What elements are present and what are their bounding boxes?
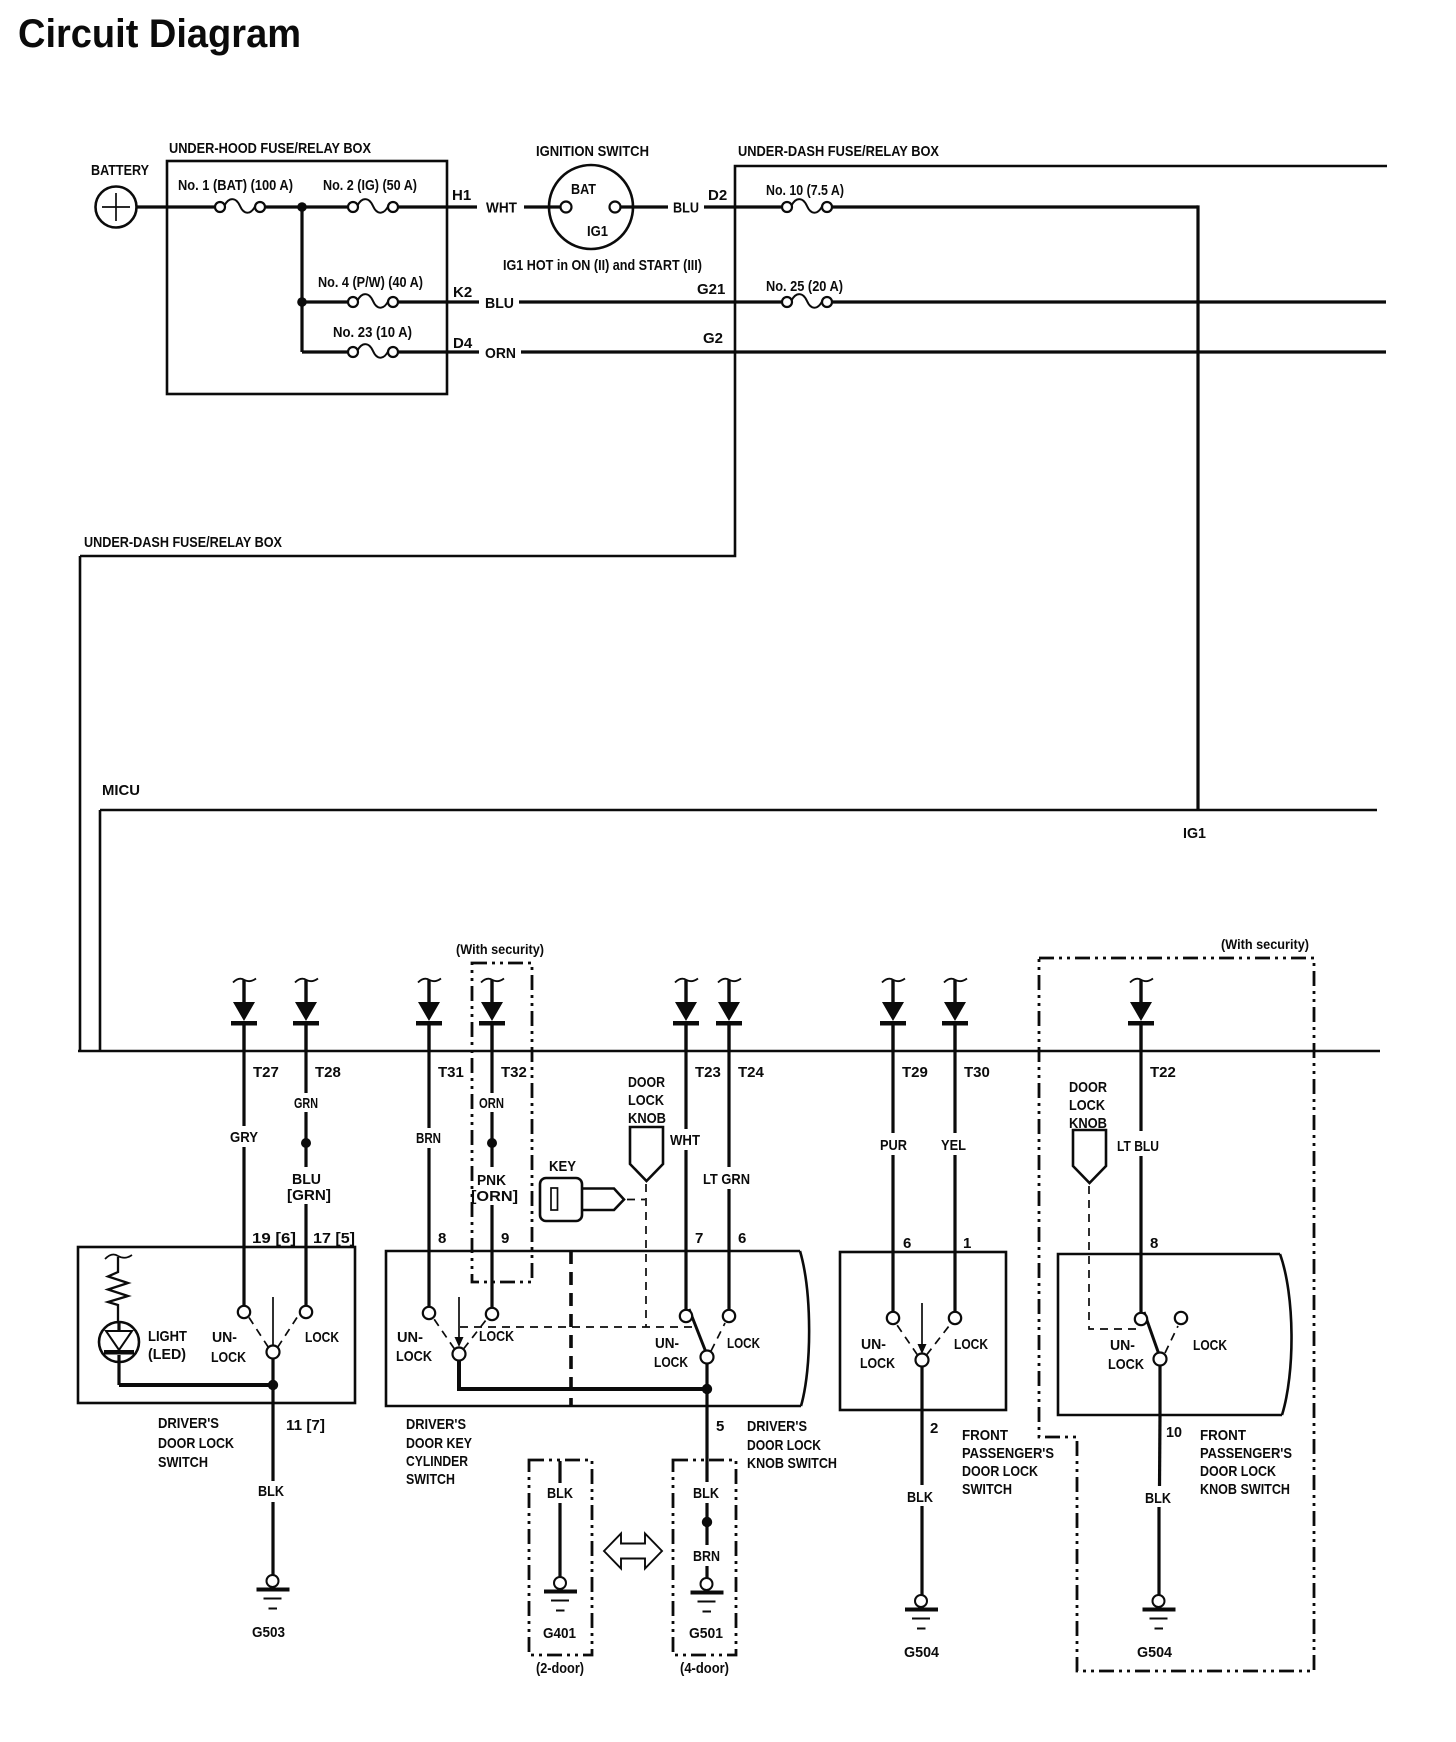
wire T32 upper xyxy=(490,1051,493,1093)
svg-text:ORN: ORN xyxy=(479,1095,504,1112)
svg-text:T32: T32 xyxy=(501,1064,527,1081)
diode D-T27 xyxy=(231,979,257,1052)
diode D-T24 xyxy=(716,979,742,1052)
svg-text:PASSENGER'S: PASSENGER'S xyxy=(962,1445,1054,1462)
svg-text:LOCK: LOCK xyxy=(727,1335,760,1352)
label driver's door key cylinder switch xyxy=(406,1416,472,1488)
ground G503 xyxy=(257,1575,290,1610)
diode D-T23 xyxy=(673,979,699,1052)
svg-text:8: 8 xyxy=(438,1230,446,1247)
mechanical link dashed from knob xyxy=(645,1184,647,1327)
wire T27 upper xyxy=(242,1051,245,1126)
svg-text:PUR: PUR xyxy=(880,1137,907,1154)
svg-text:(With security): (With security) xyxy=(1221,936,1309,952)
svg-text:BLK: BLK xyxy=(258,1483,284,1500)
svg-text:T31: T31 xyxy=(438,1064,464,1081)
svg-text:5: 5 xyxy=(716,1418,724,1435)
interchange arrow symbol xyxy=(604,1534,662,1569)
svg-text:UN-: UN- xyxy=(1110,1337,1135,1354)
svg-text:No. 10 (7.5 A): No. 10 (7.5 A) xyxy=(766,182,844,199)
wire G401 xyxy=(558,1461,561,1483)
svg-text:SWITCH: SWITCH xyxy=(158,1454,208,1471)
svg-text:DRIVER'S: DRIVER'S xyxy=(158,1415,219,1432)
label front passenger's door lock knob switch xyxy=(1200,1427,1292,1498)
svg-text:DOOR LOCK: DOOR LOCK xyxy=(747,1437,821,1454)
under-hood fuse/relay box xyxy=(167,161,447,394)
svg-text:[ORN]: [ORN] xyxy=(471,1188,518,1205)
svg-text:G401: G401 xyxy=(543,1625,576,1642)
door lock knob symbol (driver) xyxy=(630,1127,663,1181)
svg-text:T27: T27 xyxy=(253,1064,279,1081)
svg-text:Circuit Diagram: Circuit Diagram xyxy=(18,12,301,56)
wire T30 lower xyxy=(953,1155,956,1312)
wire T31 lower xyxy=(427,1148,430,1307)
svg-text:GRN: GRN xyxy=(294,1095,318,1112)
svg-text:KEY: KEY xyxy=(549,1158,576,1175)
svg-text:D4: D4 xyxy=(453,335,473,352)
door lock knob label (driver) xyxy=(628,1074,666,1127)
svg-text:LOCK: LOCK xyxy=(479,1328,514,1345)
wire T29 lower xyxy=(891,1155,894,1312)
front passenger's door lock knob switch box xyxy=(1058,1254,1292,1415)
svg-text:WHT: WHT xyxy=(486,200,517,217)
svg-text:LOCK: LOCK xyxy=(954,1336,988,1353)
wire T32 mid xyxy=(490,1112,493,1140)
svg-text:KNOB SWITCH: KNOB SWITCH xyxy=(1200,1481,1290,1498)
svg-text:[GRN]: [GRN] xyxy=(287,1187,331,1204)
ground G401 xyxy=(544,1577,577,1612)
svg-text:7: 7 xyxy=(695,1230,703,1247)
wire pass switch common down xyxy=(920,1366,923,1410)
svg-text:No. 4 (P/W) (40 A): No. 4 (P/W) (40 A) xyxy=(318,274,423,291)
svg-text:MICU: MICU xyxy=(102,782,140,799)
svg-text:H1: H1 xyxy=(452,187,471,204)
svg-text:WHT: WHT xyxy=(670,1132,700,1149)
svg-text:D2: D2 xyxy=(708,187,727,204)
node junction LED/switch xyxy=(268,1380,278,1390)
svg-text:(4-door): (4-door) xyxy=(680,1660,729,1677)
svg-text:G503: G503 xyxy=(252,1624,285,1641)
driver's door key cylinder / knob switch box xyxy=(386,1251,809,1406)
svg-text:SWITCH: SWITCH xyxy=(962,1481,1012,1498)
svg-text:T22: T22 xyxy=(1150,1064,1176,1081)
wire T32 lower xyxy=(490,1205,493,1308)
ground G501 xyxy=(691,1578,724,1613)
wire to G503 lower xyxy=(271,1502,274,1575)
svg-text:DOOR: DOOR xyxy=(628,1074,665,1091)
splice dot T28 xyxy=(301,1138,311,1148)
ground G504 (pass knob) xyxy=(1143,1595,1176,1630)
svg-text:DOOR LOCK: DOOR LOCK xyxy=(962,1463,1038,1480)
svg-text:IGNITION SWITCH: IGNITION SWITCH xyxy=(536,143,649,160)
svg-text:ORN: ORN xyxy=(485,345,516,362)
svg-text:T30: T30 xyxy=(964,1064,990,1081)
wire corner to fuse No.23 xyxy=(302,350,348,353)
wire G501 mid xyxy=(705,1503,708,1545)
svg-text:BLK: BLK xyxy=(907,1489,933,1506)
svg-text:LT GRN: LT GRN xyxy=(703,1171,750,1188)
vertical bus in under-hood box xyxy=(300,207,303,352)
resistor R1 xyxy=(108,1257,128,1322)
svg-text:9: 9 xyxy=(501,1230,509,1247)
svg-text:G504: G504 xyxy=(904,1644,940,1661)
svg-text:LOCK: LOCK xyxy=(860,1355,895,1372)
svg-text:UN-: UN- xyxy=(397,1329,423,1346)
svg-text:DOOR LOCK: DOOR LOCK xyxy=(1200,1463,1276,1480)
wire ORN to right end (G2) xyxy=(521,350,1386,353)
wire T29 upper xyxy=(891,1051,894,1133)
svg-text:11 [7]: 11 [7] xyxy=(286,1417,325,1434)
svg-text:No. 23 (10 A): No. 23 (10 A) xyxy=(333,324,412,341)
svg-text:BAT: BAT xyxy=(571,181,596,198)
svg-text:BRN: BRN xyxy=(416,1130,441,1147)
MICU / under-dash box bottom edge xyxy=(78,1050,1380,1053)
splice dot T32 xyxy=(487,1138,497,1148)
svg-text:UNDER-DASH FUSE/RELAY BOX: UNDER-DASH FUSE/RELAY BOX xyxy=(84,534,282,551)
svg-text:BATTERY: BATTERY xyxy=(91,162,149,179)
wire T32 mid2 xyxy=(490,1146,493,1167)
svg-text:(LED): (LED) xyxy=(148,1346,186,1363)
svg-text:LOCK: LOCK xyxy=(396,1348,432,1365)
svg-text:SWITCH: SWITCH xyxy=(406,1471,455,1488)
node junction knob common xyxy=(702,1384,712,1394)
switch S2 driver's door key cylinder switch xyxy=(423,1297,498,1361)
wire to G504 upper (pass knob) xyxy=(1158,1415,1162,1486)
wire junction to fuse No.2 xyxy=(302,205,348,208)
svg-text:8: 8 xyxy=(1150,1235,1158,1252)
wire T24 lower xyxy=(727,1189,730,1310)
fuse No.10 (7.5 A) xyxy=(782,199,832,213)
svg-text:LOCK: LOCK xyxy=(1108,1356,1144,1373)
label driver's door lock switch xyxy=(158,1415,234,1471)
svg-text:DOOR: DOOR xyxy=(1069,1079,1107,1096)
label front passenger's door lock switch xyxy=(962,1427,1054,1498)
diode D-T32 xyxy=(479,979,505,1052)
wire fuse No.10 to corner xyxy=(832,205,1198,208)
wire T31 upper xyxy=(427,1051,430,1128)
under-dash fuse/relay box left edge xyxy=(79,556,82,1051)
switch S1 driver's door lock switch xyxy=(238,1297,312,1359)
svg-text:UN-: UN- xyxy=(655,1335,679,1352)
fuse No.25 (20 A) xyxy=(782,294,832,308)
wire T24 upper xyxy=(727,1051,730,1167)
svg-text:T28: T28 xyxy=(315,1064,341,1081)
wire WHT to ignition switch xyxy=(524,205,561,208)
wire T23 upper xyxy=(684,1051,687,1129)
svg-text:G501: G501 xyxy=(689,1625,723,1642)
wire fuse No.23 to ORN gap xyxy=(398,350,479,353)
svg-text:G2: G2 xyxy=(703,330,723,347)
svg-text:DOOR LOCK: DOOR LOCK xyxy=(158,1435,234,1452)
wire pass knob common down xyxy=(1158,1365,1161,1415)
svg-text:T29: T29 xyxy=(902,1064,928,1081)
svg-text:No. 25 (20 A): No. 25 (20 A) xyxy=(766,278,843,295)
diode D-T30 xyxy=(942,979,968,1052)
svg-text:1: 1 xyxy=(963,1235,971,1252)
wire to G503 upper xyxy=(271,1403,274,1481)
svg-text:DRIVER'S: DRIVER'S xyxy=(406,1416,466,1433)
svg-text:BLK: BLK xyxy=(693,1485,719,1502)
battery B1 xyxy=(96,187,137,228)
svg-text:KNOB SWITCH: KNOB SWITCH xyxy=(747,1455,837,1472)
wire junction to fuse No.4 xyxy=(302,300,348,303)
svg-text:6: 6 xyxy=(903,1235,911,1252)
mechanical link dashed horizontal xyxy=(460,1326,694,1328)
node junction A xyxy=(297,202,307,212)
svg-text:UNDER-DASH FUSE/RELAY BOX: UNDER-DASH FUSE/RELAY BOX xyxy=(738,143,939,160)
svg-text:KNOB: KNOB xyxy=(628,1110,666,1127)
svg-text:UN-: UN- xyxy=(861,1336,886,1353)
node junction B xyxy=(297,297,307,307)
wire fuse No.1 to junction xyxy=(265,205,302,208)
wire fuse No.4 to BLU gap xyxy=(398,300,479,303)
svg-text:2: 2 xyxy=(930,1420,938,1437)
wire fuse No.2 to WHT gap xyxy=(398,205,477,208)
svg-text:FRONT: FRONT xyxy=(1200,1427,1246,1444)
svg-text:LT BLU: LT BLU xyxy=(1117,1138,1159,1155)
wire to G504 lower (pass knob) xyxy=(1157,1507,1160,1596)
under-dash fuse/relay box outline (top section) xyxy=(80,166,1387,556)
door lock knob label (passenger) xyxy=(1069,1079,1107,1132)
fuse No.4 (P/W) (40 A) xyxy=(348,294,398,308)
wire T28 lower xyxy=(304,1204,307,1306)
svg-text:BLK: BLK xyxy=(547,1485,573,1502)
wire key cylinder common to knob common xyxy=(459,1360,707,1389)
MICU box left edge xyxy=(99,810,102,1051)
wire T28 upper xyxy=(304,1051,307,1093)
svg-text:LOCK: LOCK xyxy=(654,1354,688,1371)
switch S3 driver's door lock knob switch xyxy=(680,1309,735,1364)
LED light xyxy=(99,1322,139,1385)
wire fuse No.25 to right end xyxy=(832,300,1386,303)
svg-text:PASSENGER'S: PASSENGER'S xyxy=(1200,1445,1292,1462)
ignition switch SW1 xyxy=(549,165,633,249)
wire to G504 upper (pass switch) xyxy=(920,1410,923,1485)
wire BLU to under-dash box (G21) xyxy=(519,300,782,303)
svg-text:T23: T23 xyxy=(695,1064,721,1081)
fuse No.23 (10 A) xyxy=(348,344,398,358)
svg-text:BRN: BRN xyxy=(693,1548,720,1565)
svg-text:BLU: BLU xyxy=(485,295,514,312)
wire BLU to fuse No.10 xyxy=(704,205,782,208)
svg-text:DRIVER'S: DRIVER'S xyxy=(747,1418,807,1435)
diode D-T29 xyxy=(880,979,906,1052)
svg-text:IG1: IG1 xyxy=(1183,825,1206,842)
svg-text:BLU: BLU xyxy=(673,200,699,217)
wire T27 lower xyxy=(242,1147,245,1306)
G401 box (2-door) xyxy=(529,1460,592,1655)
bold dashed divider xyxy=(569,1251,573,1406)
diode D-T28 xyxy=(293,979,319,1052)
wire T28 mid xyxy=(304,1112,307,1140)
door lock knob symbol (passenger) xyxy=(1073,1130,1106,1183)
svg-text:(With security): (With security) xyxy=(456,941,544,957)
wire ignition to BLU gap xyxy=(621,205,668,208)
diode D-T22 xyxy=(1128,979,1154,1052)
svg-text:FRONT: FRONT xyxy=(962,1427,1008,1444)
svg-text:No. 2 (IG) (50 A): No. 2 (IG) (50 A) xyxy=(323,177,417,194)
wire knob common to G501 upper xyxy=(705,1406,708,1482)
svg-text:19 [6]: 19 [6] xyxy=(252,1230,296,1247)
wire T30 upper xyxy=(953,1051,956,1133)
switch S5 front passenger's door lock knob switch xyxy=(1135,1312,1187,1366)
svg-text:DOOR KEY: DOOR KEY xyxy=(406,1435,472,1452)
(With security) box around T32 xyxy=(472,963,532,1282)
svg-text:No. 1 (BAT) (100 A): No. 1 (BAT) (100 A) xyxy=(178,177,293,194)
fuse No.2 (IG) (50 A) xyxy=(348,199,398,213)
wire LED to junction xyxy=(119,1383,273,1387)
wire T28 mid2 xyxy=(304,1146,307,1167)
resistor squiggle top xyxy=(105,1255,132,1259)
switch S4 front passenger's door lock switch xyxy=(887,1303,961,1367)
wire G501 lower xyxy=(705,1566,708,1578)
svg-text:BLU: BLU xyxy=(292,1171,321,1188)
splice dot G501 xyxy=(702,1517,712,1527)
svg-text:T24: T24 xyxy=(738,1064,765,1081)
G501 box (4-door) xyxy=(673,1460,736,1655)
svg-text:G504: G504 xyxy=(1137,1644,1173,1661)
svg-text:LOCK: LOCK xyxy=(211,1349,246,1366)
svg-text:LOCK: LOCK xyxy=(1193,1337,1227,1354)
wire G401 lower xyxy=(558,1503,561,1577)
svg-text:K2: K2 xyxy=(453,284,472,301)
mechanical link dashed from key xyxy=(627,1199,645,1201)
MICU box top edge xyxy=(100,809,1377,812)
svg-text:G21: G21 xyxy=(697,281,725,298)
mechanical link dashed (passenger knob) xyxy=(1089,1186,1141,1329)
key symbol xyxy=(540,1178,624,1221)
ground G504 (pass switch) xyxy=(905,1595,938,1630)
label driver's door lock knob switch xyxy=(747,1418,837,1472)
svg-text:(2-door): (2-door) xyxy=(536,1660,584,1677)
diode D-T31 xyxy=(416,979,442,1052)
svg-text:17 [5]: 17 [5] xyxy=(313,1230,355,1247)
svg-text:LOCK: LOCK xyxy=(1069,1097,1105,1114)
svg-text:LOCK: LOCK xyxy=(628,1092,664,1109)
fuse No.1 (BAT) (100 A) xyxy=(215,199,265,213)
wire to G504 lower (pass switch) xyxy=(920,1506,923,1596)
svg-text:GRY: GRY xyxy=(230,1129,258,1146)
wire battery to fuse No.1 xyxy=(136,205,215,208)
wire T22 upper xyxy=(1139,1051,1142,1131)
svg-text:UN-: UN- xyxy=(212,1329,237,1346)
wire switch common down xyxy=(271,1358,274,1403)
svg-text:IG1: IG1 xyxy=(587,223,608,240)
front passenger's door lock switch box xyxy=(840,1252,1006,1410)
svg-text:BLK: BLK xyxy=(1145,1490,1171,1507)
svg-text:LOCK: LOCK xyxy=(305,1329,339,1346)
svg-text:IG1 HOT in ON (II) and START (: IG1 HOT in ON (II) and START (III) xyxy=(503,257,702,274)
driver's door lock switch box xyxy=(78,1247,355,1403)
wire IG1 vertical to MICU xyxy=(1196,205,1199,810)
(With security) box right xyxy=(1039,958,1314,1671)
wire knob common down xyxy=(705,1363,708,1406)
svg-text:6: 6 xyxy=(738,1230,746,1247)
svg-text:CYLINDER: CYLINDER xyxy=(406,1453,468,1470)
svg-text:PNK: PNK xyxy=(477,1172,506,1189)
wire T23 lower xyxy=(684,1150,687,1310)
svg-text:LIGHT: LIGHT xyxy=(148,1328,187,1345)
svg-text:YEL: YEL xyxy=(941,1137,966,1154)
svg-text:UNDER-HOOD FUSE/RELAY BOX: UNDER-HOOD FUSE/RELAY BOX xyxy=(169,140,371,157)
wire T22 lower xyxy=(1139,1156,1142,1313)
svg-text:10: 10 xyxy=(1166,1424,1182,1441)
